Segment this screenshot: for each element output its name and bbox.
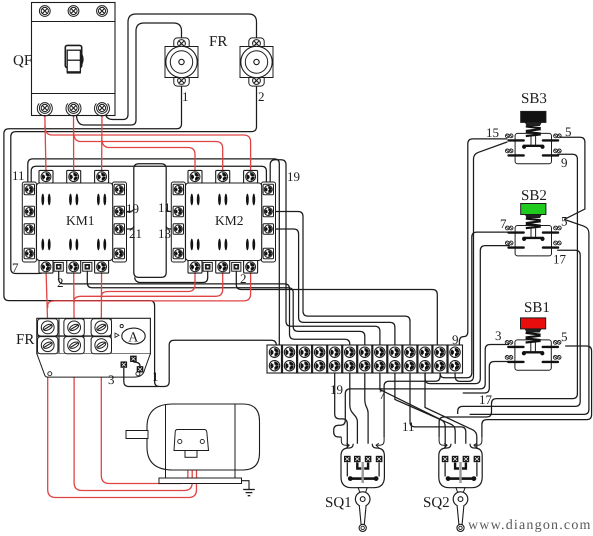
terminal strip screw top 7 — [360, 347, 370, 357]
KM2 contact slot bottom 3 — [246, 239, 255, 251]
KM1 contact slot bottom 2 — [69, 239, 78, 251]
KM2 bottom terminal 3 — [244, 261, 258, 274]
contactor KM1 body — [22, 182, 126, 262]
svg-text:11: 11 — [402, 419, 415, 434]
KM2 coil terminal A — [203, 262, 212, 271]
KM2 contact slot top 3 — [246, 194, 255, 206]
push button SB2 body — [515, 226, 551, 256]
SQ2 actuator — [453, 488, 468, 532]
wire strip 11 to SQ2 t4 — [425, 374, 477, 457]
SB1 moving bridge — [522, 351, 545, 355]
terminal strip screw bottom 11 — [420, 361, 430, 371]
wire strip 9 to SQ2 t2 — [395, 374, 455, 457]
wire SB2-5 right loop down — [470, 219, 589, 414]
svg-text:13: 13 — [158, 226, 171, 241]
SB1 NO contact bars — [505, 356, 561, 364]
KM1 contact slot top 3 — [97, 194, 106, 206]
SB3 moving bridge — [522, 145, 545, 149]
limit switch SQ1 body — [341, 444, 384, 488]
wire KM1 coil B to strip 7 — [87, 271, 365, 347]
wire KM2 coil B to strip 12 — [236, 271, 437, 347]
QF top terminal 2 — [68, 6, 79, 17]
wire SB1 left row2 loop — [463, 362, 509, 394]
red wire QF-L3 branch to KM2 top1 — [102, 138, 195, 174]
KM1 left terminal 1 — [24, 184, 34, 194]
KM1 right terminal 2 — [114, 206, 124, 216]
terminal strip screw top 12 — [435, 347, 445, 357]
wire KM1-21 tap — [125, 226, 134, 229]
KM1 contact slot bottom 3 — [97, 239, 106, 251]
SQ2 terminal 4 — [474, 456, 480, 462]
KM1 bottom terminal 1 — [39, 261, 53, 274]
KM2 right terminal 3 — [263, 224, 273, 234]
KM1 left terminal 4 — [24, 248, 34, 258]
svg-text:5: 5 — [565, 124, 572, 139]
FR block mounting hole right — [136, 372, 140, 376]
svg-text:7: 7 — [379, 387, 386, 402]
red wire KM2 bottom1 crossover — [102, 269, 196, 298]
wire QF-3 to FR2-top — [105, 14, 256, 120]
terminal strip screw top 2 — [284, 347, 294, 357]
svg-text:17: 17 — [479, 392, 493, 407]
FR block screw 6 — [91, 337, 111, 354]
svg-text:SB3: SB3 — [521, 91, 547, 107]
terminal strip screw bottom 4 — [314, 361, 324, 371]
terminal strip screw bottom 13 — [450, 361, 460, 371]
svg-text:9: 9 — [561, 155, 568, 170]
wire strip 7 to SQ1 t3 — [365, 374, 368, 457]
KM1 left terminal 3 — [24, 224, 34, 234]
terminal strip screw top 13 — [450, 347, 460, 357]
KM2 contact slot bottom 2 — [218, 239, 227, 251]
KM2 coil terminal B — [232, 262, 241, 271]
svg-text:11: 11 — [12, 168, 25, 183]
wire FR aux screw link — [133, 362, 140, 366]
svg-text:SB2: SB2 — [521, 188, 547, 204]
wire SB1-5 right loop to SQ2 right hook — [482, 346, 592, 437]
svg-text:SB1: SB1 — [524, 300, 550, 316]
svg-text:QF: QF — [13, 53, 32, 69]
FR heater element 2 — [240, 38, 273, 86]
wire strip 6 to SQ1 t2 — [350, 374, 358, 457]
push button SB3 body — [515, 133, 551, 163]
QF top terminal 3 — [97, 6, 108, 17]
wire interlock loop 19-11-21-13 — [134, 164, 166, 278]
QF toggle handle — [65, 45, 82, 72]
KM2 bottom terminal 1 — [188, 261, 202, 274]
terminal strip screw top 5 — [330, 347, 340, 357]
SQ1 internal contacts — [347, 462, 379, 483]
terminal strip screw bottom 1 — [269, 361, 279, 371]
terminal strip screw top 4 — [314, 347, 324, 357]
motor terminal box — [174, 430, 209, 458]
wire strip 8 diag to SQ2 t1 — [380, 374, 445, 457]
SQ1 terminal 4 — [376, 456, 382, 462]
QF terminal hook 3 — [95, 103, 110, 115]
KM1 top terminal 2 — [67, 170, 81, 183]
ammeter A — [115, 325, 145, 346]
wire strip 5 to SQ1 t1 — [335, 374, 348, 457]
svg-text:7: 7 — [500, 216, 507, 231]
svg-text:9: 9 — [452, 332, 459, 347]
svg-text:KM2: KM2 — [215, 213, 244, 228]
SB1 cap and spring — [521, 318, 546, 352]
svg-text:FR: FR — [16, 332, 34, 348]
SB3 cap and spring — [521, 111, 546, 144]
KM1 right terminal 3 — [114, 224, 124, 234]
KM1 contact slot top 1 — [41, 194, 50, 206]
red wire KM2 bottom3 crossover — [48, 269, 251, 308]
SQ1 terminal 3 — [365, 456, 371, 462]
QF top terminal 1 — [39, 6, 50, 17]
svg-text:5: 5 — [561, 329, 568, 344]
SQ2 terminal 2 — [452, 456, 458, 462]
wire SB2-7 left to strip 12 bottom — [440, 232, 510, 378]
svg-text:1: 1 — [182, 89, 189, 104]
red wire QF-L2 to KM1 top2 — [73, 112, 75, 174]
QF terminal hook 1 — [37, 103, 52, 115]
red wire KM1 bottom3 to FR-block 3 — [100, 269, 102, 325]
svg-text:17: 17 — [553, 252, 567, 267]
wire SB3-9 right down to SQ2 left hook — [439, 154, 577, 437]
KM2 right terminal 2 — [263, 206, 273, 216]
KM1 top terminal 3 — [95, 170, 109, 183]
FR block screw 1 — [38, 319, 58, 336]
SQ2 cable entry hooks — [439, 437, 482, 448]
KM1 top terminal 1 — [39, 170, 53, 183]
wire KM1-19 tap — [125, 209, 134, 212]
wire KM2 right row3 to strip 9 — [274, 229, 395, 347]
svg-text:FR: FR — [209, 34, 227, 50]
terminal strip screw bottom 6 — [345, 361, 355, 371]
SQ2 terminal 3 — [463, 456, 469, 462]
motor shaft — [126, 431, 148, 439]
wire KM2-11 tap — [166, 209, 172, 212]
SQ2 terminal 1 — [442, 456, 448, 462]
wire KM2-13 tap — [166, 226, 172, 229]
svg-text:3: 3 — [108, 372, 115, 387]
wire SB1-3 left down to SQ1 left hook — [334, 345, 509, 438]
KM1 left terminal 2 — [24, 206, 34, 216]
wire FR2-bottom to KM1 bottom-left — [11, 84, 257, 274]
SQ1 cable entry hooks — [341, 437, 384, 448]
svg-text:11: 11 — [158, 200, 171, 215]
wire SB3 row1 left to strip right — [459, 139, 507, 345]
KM1 bottom terminal 3 — [95, 261, 109, 274]
svg-text:2: 2 — [57, 275, 64, 290]
KM1 right terminal 1 — [114, 184, 124, 194]
wire KM2 right row2 to strip 10 — [274, 212, 410, 348]
KM2 top terminal 2 — [216, 170, 230, 183]
KM1 coil terminal B — [83, 262, 92, 271]
svg-text:19: 19 — [126, 201, 139, 216]
motor M body — [147, 404, 260, 470]
terminal strip screw top 10 — [405, 347, 415, 357]
KM2 contact slot top 2 — [218, 194, 227, 206]
SQ1 terminal 2 — [354, 456, 360, 462]
KM2 top terminal 3 — [244, 170, 258, 183]
FR block aux terminal 1 — [121, 362, 127, 368]
terminal strip screw top 9 — [390, 347, 400, 357]
QF terminal hook 2 — [66, 103, 81, 115]
SB1 NC contact bars — [505, 341, 561, 349]
red wire FR-block 3 to motor — [101, 354, 188, 484]
KM1 contact slot bottom 1 — [41, 239, 50, 251]
KM2 left terminal 2 — [173, 206, 183, 216]
red wire QF-L2 branch to KM2 top2 — [74, 132, 223, 174]
wire SB3-15 down left side to strip 13 bottom — [455, 142, 507, 382]
push button SB1 body — [515, 340, 551, 370]
QF bottom terminal 1 — [39, 103, 50, 114]
terminal strip XT — [267, 345, 463, 373]
FR block screw 2 — [64, 319, 84, 336]
SB2 NC contact bars — [505, 226, 561, 234]
QF bottom terminal 3 — [97, 103, 108, 114]
KM2 left terminal 3 — [173, 224, 183, 234]
KM1 coil terminal A — [54, 262, 63, 271]
svg-text:2: 2 — [258, 89, 265, 104]
svg-text:5: 5 — [561, 214, 568, 229]
thermal relay FR block body — [37, 318, 151, 377]
terminal strip screw bottom 7 — [360, 361, 370, 371]
KM2 bottom terminal 2 — [216, 261, 230, 274]
terminal strip screw bottom 10 — [405, 361, 415, 371]
wire SB2 left row2 down to strip 11 bottom — [425, 246, 510, 384]
wire KM1 coil A to strip 6 — [59, 271, 350, 347]
terminal strip screw top 11 — [420, 347, 430, 357]
wire FR aux screw to node 3 — [124, 368, 158, 387]
wire SB2-17 right down to node 17 — [458, 250, 581, 414]
circuit breaker QF body — [32, 3, 116, 116]
terminal strip screw bottom 12 — [435, 361, 445, 371]
svg-text:7: 7 — [12, 260, 19, 275]
KM2 left terminal 4 — [173, 248, 183, 258]
terminal strip screw top 3 — [299, 347, 309, 357]
red wire KM2 bottom2 crossover — [74, 269, 223, 303]
svg-text:21: 21 — [129, 226, 142, 241]
wire KM2 right row1 loop to strip 8 (node 19) — [270, 160, 380, 347]
wire QF-2 to FR1-top — [76, 23, 181, 125]
wire strip 12 loop to SQ1 right hook — [384, 374, 440, 438]
wire SB3-5 right to SB2-5 — [557, 137, 585, 219]
motor legs — [166, 470, 236, 478]
svg-text:A: A — [128, 330, 139, 345]
KM2 top terminal 1 — [188, 170, 202, 183]
QF bottom terminal 2 — [68, 103, 79, 114]
KM1 contact slot top 2 — [69, 194, 78, 206]
svg-text:2: 2 — [240, 271, 247, 286]
red wire QF-L3 to KM1 top3 — [101, 112, 103, 174]
KM2 right terminal 4 — [263, 248, 273, 258]
SQ2 internal contacts — [445, 462, 477, 483]
KM2 right terminal 1 — [263, 184, 273, 194]
FR block aux terminal 2 — [131, 356, 137, 362]
FR block screw 3 — [91, 319, 111, 336]
limit switch SQ2 body — [439, 444, 482, 488]
SB2 NO contact bars — [505, 241, 561, 249]
wire KM2 coil A to interlock — [135, 271, 208, 283]
SQ1 actuator — [355, 488, 370, 532]
red wire FR-block 2 to motor — [74, 354, 192, 491]
SB3 NC contact bars — [505, 134, 561, 142]
svg-text:1: 1 — [152, 369, 159, 384]
terminal strip screw top 8 — [375, 347, 385, 357]
wire strip 10 node 11 to SQ2 t3 — [410, 374, 466, 457]
SB3 NO contact bars — [505, 149, 561, 157]
SB2 moving bridge — [522, 237, 545, 241]
FR block screw 5 — [64, 337, 84, 354]
KM2 contact slot top 1 — [190, 194, 199, 206]
svg-text:19: 19 — [287, 169, 300, 184]
contactor KM2 body — [171, 182, 275, 262]
motor base — [159, 478, 242, 484]
red wire QF-L1 to KM1 top1 — [45, 112, 46, 174]
terminal strip screw top 1 — [269, 347, 279, 357]
red wire KM1 bottom1 to FR-block 1 — [46, 269, 48, 325]
terminal strip screw bottom 5 — [330, 361, 340, 371]
KM1 right terminal 4 — [114, 248, 124, 258]
terminal strip screw bottom 2 — [284, 361, 294, 371]
terminal strip screw bottom 9 — [390, 361, 400, 371]
svg-text:15: 15 — [486, 125, 499, 140]
KM1 bottom terminal 2 — [67, 261, 81, 274]
KM2 contact slot bottom 1 — [190, 239, 199, 251]
red wire FR-block 1 to motor — [48, 354, 197, 498]
terminal strip screw bottom 3 — [299, 361, 309, 371]
svg-text:KM1: KM1 — [66, 213, 95, 228]
svg-text:SQ2: SQ2 — [423, 495, 450, 511]
SB2 cap and spring — [521, 204, 546, 238]
FR block mounting hole left — [48, 372, 52, 376]
wire KM1 terminal 11 upper run — [31, 166, 266, 196]
FR block aux terminal 3 — [137, 367, 143, 373]
wire FR1-bottom to terminal strip 1 — [4, 84, 276, 387]
svg-text:3: 3 — [495, 328, 502, 343]
FR heater element 1 — [165, 38, 198, 86]
red wire QF-L1 branch to KM2 top3 — [45, 126, 251, 174]
svg-text:19: 19 — [330, 382, 343, 397]
KM2 left terminal 1 — [173, 184, 183, 194]
terminal strip screw top 6 — [345, 347, 355, 357]
FR block screw 4 — [38, 337, 58, 354]
wire KM1 terminal 11 to strip (node 11) — [28, 159, 279, 347]
svg-text:www.diangon.com: www.diangon.com — [468, 518, 592, 533]
terminal strip screw bottom 8 — [375, 361, 385, 371]
SQ1 terminal 1 — [344, 456, 350, 462]
ground symbol — [242, 481, 255, 496]
svg-text:SQ1: SQ1 — [325, 495, 352, 511]
red wire KM1 bottom2 to FR-block 2 — [73, 269, 75, 325]
